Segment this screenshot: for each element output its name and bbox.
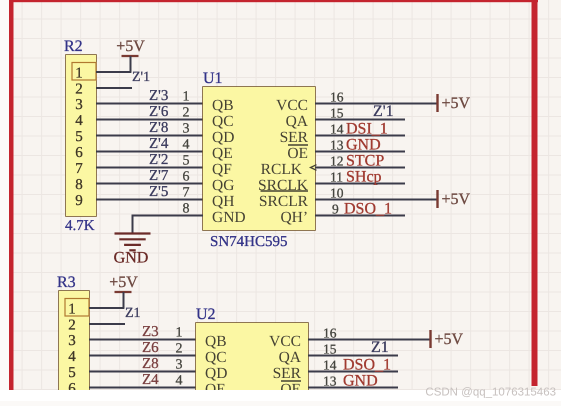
wire U1 pin 11 [315, 183, 405, 185]
svg-text:DSO_1: DSO_1 [344, 201, 392, 218]
ground symbol GND [115, 234, 151, 251]
svg-text:Z'7: Z'7 [149, 168, 169, 184]
svg-text:+5V: +5V [442, 191, 471, 208]
svg-text:R3: R3 [57, 274, 76, 291]
svg-text:4: 4 [183, 138, 190, 153]
svg-text:3: 3 [176, 358, 183, 373]
wire U2 pin 16 [308, 339, 431, 341]
+5V power bar at U1 pin 10 [436, 190, 438, 208]
svg-text:Z1: Z1 [371, 339, 389, 356]
wire U1 pin 13 [315, 151, 405, 153]
U2 left pin names [205, 333, 227, 398]
wire U1 pin 16 [315, 103, 438, 105]
svg-text:+5V: +5V [109, 274, 138, 291]
svg-text:RCLK: RCLK [261, 161, 303, 178]
svg-text:5: 5 [183, 154, 190, 169]
svg-text:3: 3 [183, 122, 190, 137]
svg-text:OE: OE [287, 145, 308, 162]
svg-text:7: 7 [183, 186, 190, 201]
wire net Z1 from R3 pin 2 [89, 323, 125, 325]
svg-text:QD: QD [205, 365, 227, 382]
svg-text:2: 2 [68, 318, 76, 334]
+5V power bar at R2 [122, 55, 139, 57]
wire R3 pin 1 [89, 307, 124, 309]
svg-text:8: 8 [183, 202, 190, 217]
svg-text:DSO_1: DSO_1 [343, 357, 391, 374]
svg-text:8: 8 [75, 177, 83, 193]
svg-text:Z'6: Z'6 [149, 104, 169, 120]
U2 right pin names [269, 333, 302, 398]
svg-text:9: 9 [75, 193, 83, 209]
svg-text:16: 16 [330, 90, 344, 105]
svg-text:Z6: Z6 [142, 340, 159, 356]
svg-text:+5V: +5V [442, 95, 471, 112]
svg-text:Z1: Z1 [125, 306, 141, 321]
svg-text:15: 15 [323, 342, 337, 357]
svg-text:QH’: QH’ [280, 209, 308, 226]
svg-text:Z'4: Z'4 [149, 136, 169, 152]
overline on U1 SRCLR pin name [261, 190, 309, 192]
sheet border frame [9, 0, 14, 390]
resistor network R3 body [59, 291, 89, 406]
svg-text:1: 1 [176, 326, 183, 341]
svg-text:6: 6 [75, 145, 83, 161]
svg-text:GND: GND [346, 137, 381, 154]
wire net Z6 (R3.4 to U2.2) [89, 355, 196, 357]
svg-text:SRCLR: SRCLR [259, 193, 309, 210]
wire net Z'2 (R2.7 to U1.5) [96, 167, 203, 169]
svg-text:QF: QF [212, 161, 232, 178]
svg-text:GND: GND [212, 209, 246, 226]
svg-text:QH: QH [212, 193, 234, 210]
wire U2 pin 14 [308, 371, 398, 373]
svg-text:SHcp: SHcp [346, 169, 382, 186]
svg-text:VCC: VCC [276, 97, 308, 114]
U1 right pin names [258, 97, 309, 226]
svg-text:R2: R2 [64, 38, 83, 55]
U1 left pin names [212, 97, 246, 226]
R3 pin 1 marker [65, 299, 89, 317]
R2 pin 1 marker [72, 63, 96, 81]
svg-text:13: 13 [323, 374, 337, 389]
svg-text:Z8: Z8 [142, 356, 159, 372]
svg-text:6: 6 [183, 170, 190, 185]
svg-text:1: 1 [68, 302, 76, 318]
svg-text:Z3: Z3 [142, 324, 159, 340]
svg-text:SER: SER [280, 129, 309, 146]
svg-text:5: 5 [75, 129, 83, 145]
wire U1 pin 15 [315, 119, 405, 121]
svg-text:4: 4 [68, 349, 76, 365]
svg-text:CSDN @qq_1076315463: CSDN @qq_1076315463 [425, 387, 556, 399]
op IC U2 body (74HC595) [196, 323, 308, 406]
svg-text:QG: QG [212, 177, 234, 194]
svg-text:Z'5: Z'5 [149, 184, 168, 200]
svg-text:VCC: VCC [269, 333, 301, 350]
wire net Z'1 from R2 pin 2 [96, 87, 132, 89]
svg-text:Z4: Z4 [142, 372, 159, 388]
+5V power bar at R3 [115, 291, 132, 293]
wire U1 pin 14 [315, 135, 405, 137]
svg-text:Z'1: Z'1 [132, 70, 150, 85]
svg-text:QD: QD [212, 129, 234, 146]
wire U1 GND pin 8 to ground [133, 216, 204, 233]
svg-text:DSI_1: DSI_1 [346, 121, 388, 138]
svg-text:15: 15 [330, 106, 344, 121]
wire net Z'6 (R2.4 to U1.2) [96, 119, 203, 121]
svg-text:14: 14 [330, 122, 344, 137]
wire R2 pin1 stem to +5V [130, 56, 132, 72]
overline on U2 OE pin name [281, 380, 301, 382]
op IC U1 body (74HC595) [203, 87, 315, 230]
wire net Z'7 (R2.8 to U1.6) [96, 183, 203, 185]
svg-text:Z'3: Z'3 [149, 88, 168, 104]
wire U1 pin 12 [315, 167, 405, 169]
svg-text:GND: GND [114, 250, 149, 267]
wire net Z8 (R3.5 to U2.3) [89, 371, 196, 373]
wire U1 pin 9 [315, 215, 405, 217]
wire net Z3 (R3.3 to U2.1) [89, 339, 196, 341]
svg-text:+5V: +5V [435, 331, 464, 348]
svg-text:QC: QC [212, 113, 234, 130]
svg-text:QC: QC [205, 349, 227, 366]
wire net Z'3 (R2.3 to U1.1) [96, 103, 203, 105]
+5V power bar at U1 pin 16 [436, 94, 438, 112]
R3 pin numbers 1-6 [68, 302, 76, 398]
svg-text:11: 11 [330, 170, 343, 185]
R2 pin numbers 1-9 [75, 66, 83, 210]
svg-text:QB: QB [212, 97, 234, 114]
wire U1 pin 10 [315, 199, 438, 201]
wire U2 pin 13 [308, 387, 398, 389]
wire net Z'8 (R2.5 to U1.3) [96, 135, 203, 137]
resistor network R2 body [66, 55, 96, 216]
wire U2 pin 15 [308, 355, 398, 357]
svg-text:Z'1: Z'1 [373, 103, 394, 120]
svg-text:2: 2 [176, 342, 183, 357]
wire R2 pin 1 [96, 71, 131, 73]
svg-text:1: 1 [183, 90, 190, 105]
svg-text:STCP: STCP [346, 153, 384, 170]
svg-text:QA: QA [286, 113, 309, 130]
svg-text:4: 4 [75, 113, 83, 129]
svg-text:QE: QE [212, 145, 233, 162]
svg-text:13: 13 [330, 138, 344, 153]
+5V power bar at U2 pin 16 [429, 330, 431, 348]
wire net Z'5 (R2.9 to U1.7) [96, 199, 203, 201]
svg-text:SER: SER [273, 365, 302, 382]
svg-text:Z'8: Z'8 [149, 120, 168, 136]
svg-text:10: 10 [330, 186, 344, 201]
svg-text:3: 3 [75, 97, 83, 113]
wire R3 pin1 stem to +5V [123, 292, 125, 308]
wire net Z4 (R3.6 to U2.4) [89, 387, 196, 389]
svg-text:3: 3 [68, 333, 76, 349]
overline on U1 OE pin name [288, 144, 308, 146]
svg-text:U2: U2 [196, 306, 216, 323]
svg-text:4.7K: 4.7K [65, 218, 95, 234]
svg-text:5: 5 [68, 365, 76, 381]
svg-text:7: 7 [75, 161, 83, 177]
svg-text:14: 14 [323, 358, 337, 373]
svg-text:GND: GND [343, 373, 378, 390]
svg-text:16: 16 [323, 326, 337, 341]
svg-text:+5V: +5V [116, 38, 145, 55]
clock input mark on U1 RCLK [311, 165, 317, 171]
svg-text:QA: QA [279, 349, 302, 366]
svg-text:SN74HC595: SN74HC595 [210, 234, 288, 250]
svg-text:U1: U1 [203, 70, 223, 87]
svg-text:4: 4 [176, 374, 183, 389]
svg-text:12: 12 [330, 154, 344, 169]
svg-text:9: 9 [332, 202, 339, 217]
svg-text:2: 2 [75, 82, 83, 98]
watermark band [0, 390, 561, 401]
svg-text:Z'2: Z'2 [149, 152, 168, 168]
svg-text:2: 2 [183, 106, 190, 121]
wire net Z'4 (R2.6 to U1.4) [96, 151, 203, 153]
svg-text:QB: QB [205, 333, 227, 350]
svg-text:1: 1 [75, 66, 83, 82]
